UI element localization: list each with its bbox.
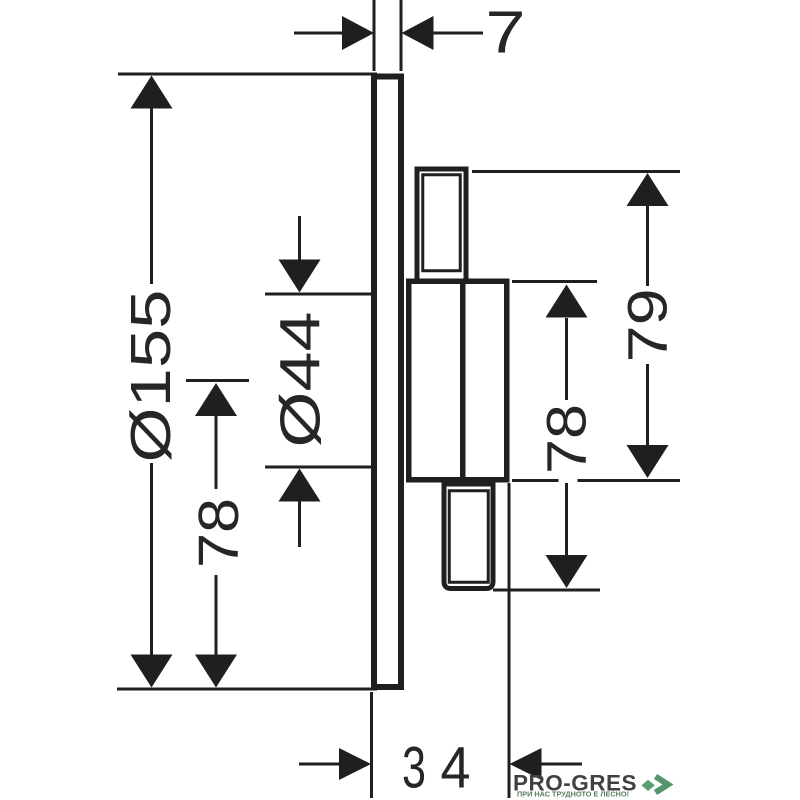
- dim 78 right: top extension line: [512, 280, 597, 283]
- arrow 79 top: [627, 173, 669, 206]
- top knob inner contour: [423, 175, 461, 271]
- dim 78 right: dimension line: [565, 318, 568, 400]
- dim 155: top extension line: [118, 73, 377, 76]
- arrow 34 left: [339, 748, 371, 780]
- dim 44: bottom extension line: [265, 466, 375, 469]
- arrow 44 up: [279, 469, 321, 502]
- dim 7: left extension line: [373, 0, 376, 71]
- svg-text:78: 78: [535, 404, 598, 474]
- arrow 7 right: [402, 16, 434, 50]
- dim 79: bottom extension line: [512, 479, 559, 482]
- svg-text:79: 79: [616, 288, 679, 362]
- arrow 155 bottom: [131, 655, 173, 688]
- dim 34: left extension line: [370, 692, 373, 798]
- wall plate: [374, 77, 401, 688]
- arrow 7 left: [342, 16, 374, 50]
- body divider: [460, 281, 466, 480]
- dim 7: left leader: [294, 32, 345, 35]
- dim 44: bottom leader: [298, 500, 301, 547]
- dim 34: right leader: [540, 763, 582, 766]
- svg-text:3: 3: [402, 736, 426, 800]
- logo diamond: [642, 780, 655, 791]
- svg-text:Ø44: Ø44: [269, 312, 333, 448]
- svg-text:4: 4: [441, 736, 471, 800]
- dim 79: top extension line: [472, 170, 680, 173]
- dim 78 left: dimension line: [215, 414, 218, 489]
- svg-text:7: 7: [486, 0, 526, 66]
- arrow 78 right bottom: [546, 555, 588, 588]
- svg-text:78: 78: [187, 498, 251, 568]
- top knob outer: [417, 169, 466, 287]
- arrow 155 top: [131, 76, 173, 109]
- arrow 79 bottom: [627, 445, 669, 478]
- dim 34: right extension line: [508, 483, 511, 798]
- svg-text:Ø155: Ø155: [119, 290, 183, 463]
- dim 34: left leader: [299, 763, 343, 766]
- arrow 78 right top: [546, 285, 588, 318]
- arrow 34 right: [510, 748, 542, 780]
- dim 78 left: center tick: [186, 379, 249, 382]
- logo chevron: [656, 777, 669, 793]
- dim 78 right: bottom extension line: [493, 589, 600, 592]
- arrow 78 left top: [195, 383, 237, 416]
- dim 7: right extension line: [400, 0, 403, 71]
- arrow 78 left bottom: [195, 655, 237, 688]
- lower knob inner contour: [449, 491, 488, 583]
- main body: [409, 281, 507, 480]
- dim 44: top leader: [298, 216, 301, 261]
- dim 155: dimension line: [150, 107, 153, 284]
- lower knob outer: [444, 484, 493, 589]
- dim 79: dimension line: [646, 205, 649, 286]
- arrow 44 down: [279, 260, 321, 293]
- svg-text:ПРИ НАС ТРУДНОТО Е ЛЕСНО!: ПРИ НАС ТРУДНОТО Е ЛЕСНО!: [517, 792, 629, 799]
- dim 155: bottom extension line: [117, 688, 377, 691]
- dim 44: top extension line: [265, 293, 375, 296]
- dim 7: right leader: [432, 32, 483, 35]
